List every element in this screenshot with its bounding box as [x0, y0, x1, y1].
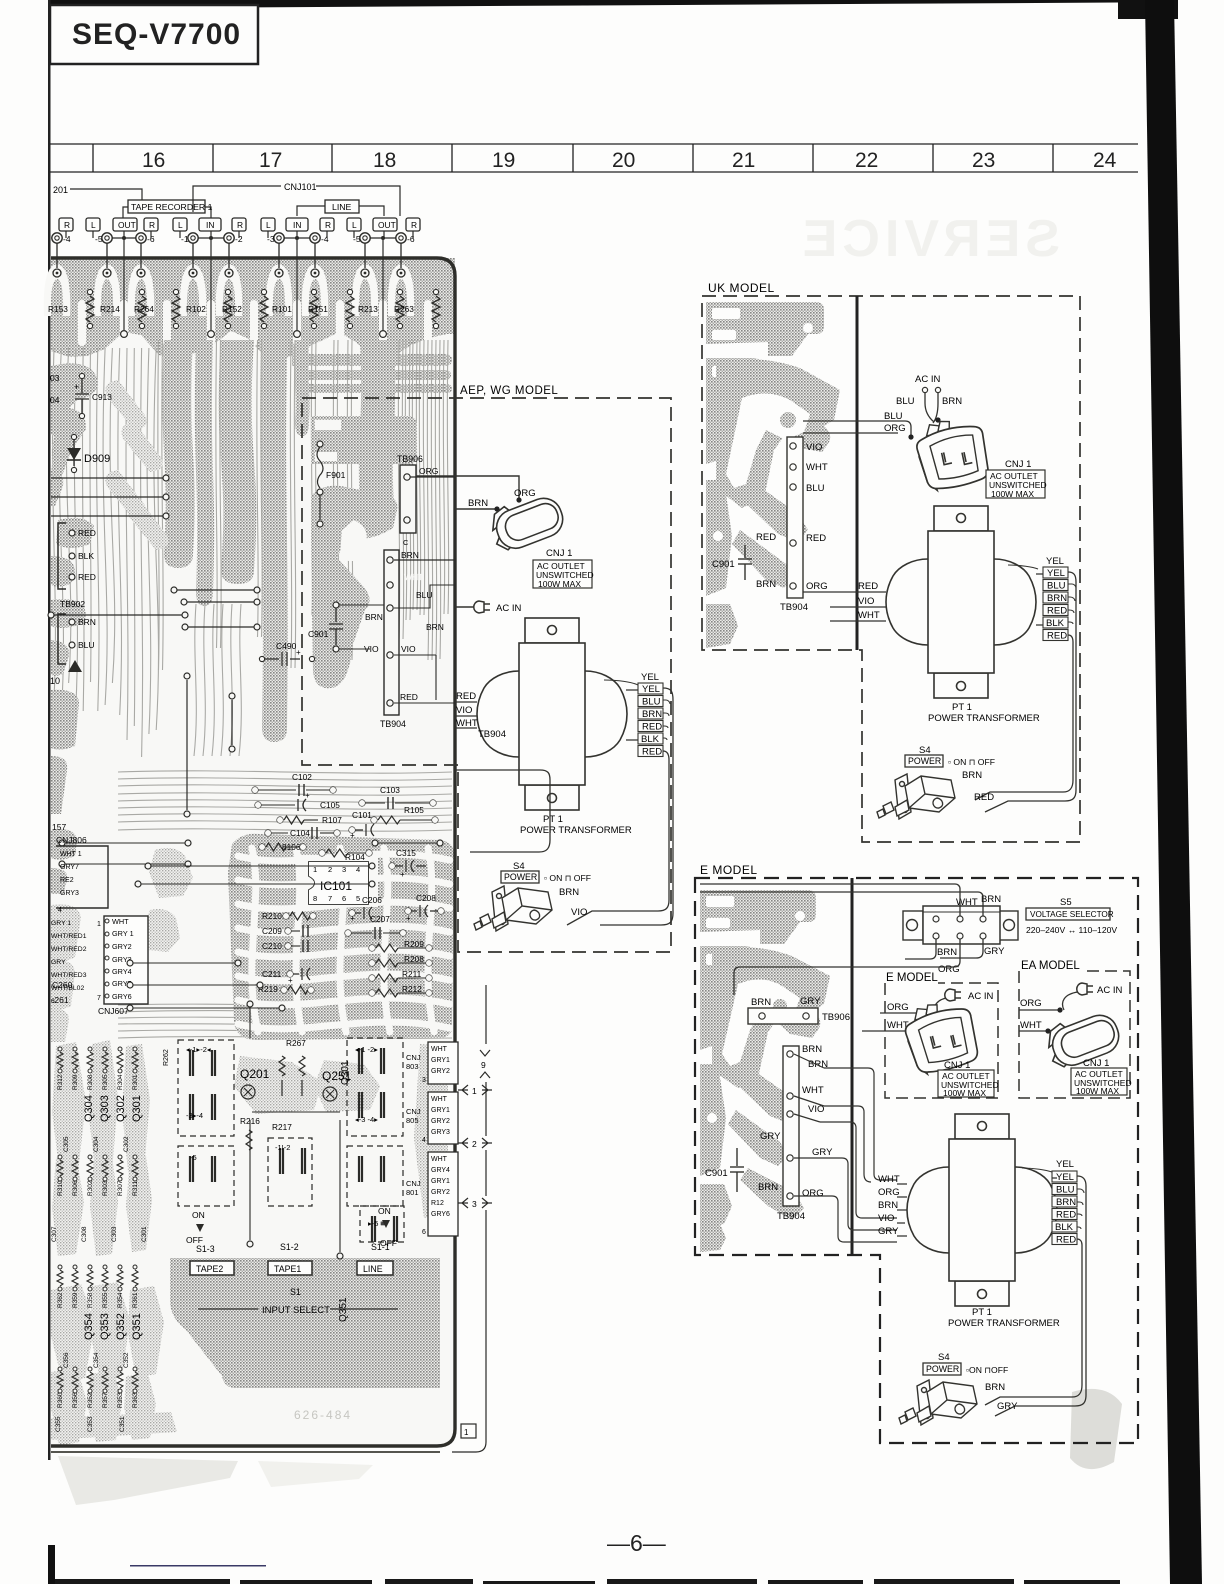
resistor row R153..R263: [86, 296, 94, 322]
svg-text:23: 23: [972, 149, 995, 172]
svg-text:R105: R105: [404, 805, 424, 815]
svg-text:C307: C307: [51, 1226, 58, 1242]
bottom small blue line: [130, 1565, 266, 1567]
svg-text:-5: -5: [95, 234, 103, 244]
svg-text:-3▸-4: -3▸-4: [186, 1111, 203, 1120]
svg-text:BRN: BRN: [985, 1382, 1005, 1393]
svg-text:BLU: BLU: [1056, 1185, 1075, 1196]
svg-text:POWER: POWER: [908, 756, 941, 766]
svg-text:TB902: TB902: [60, 599, 85, 609]
svg-text:POWER TRANSFORMER: POWER TRANSFORMER: [948, 1318, 1060, 1329]
svg-text:BLU: BLU: [896, 396, 915, 407]
transformer PT1 E: [907, 1114, 1057, 1306]
svg-text:BRN: BRN: [942, 396, 962, 407]
svg-text:YEL: YEL: [1056, 1172, 1074, 1183]
svg-text:Q251: Q251: [322, 1069, 352, 1083]
svg-text:BLU: BLU: [806, 483, 825, 494]
svg-text:C490: C490: [276, 641, 297, 651]
svg-text:TAPE2: TAPE2: [196, 1264, 223, 1274]
svg-text:RED: RED: [858, 581, 878, 592]
left wires RED VIO WHT: [803, 592, 886, 621]
svg-text:+: +: [296, 648, 301, 657]
copper blobs left column lower: [51, 904, 81, 961]
svg-text:C356: C356: [63, 1352, 70, 1368]
svg-text:R308: R308: [87, 1074, 94, 1090]
svg-text:C103: C103: [380, 785, 400, 795]
svg-text:C209: C209: [262, 926, 282, 936]
RCA pad row: [52, 233, 62, 243]
svg-text:ORG: ORG: [1020, 998, 1042, 1009]
svg-text:RED: RED: [1047, 606, 1067, 617]
svg-text:C353: C353: [87, 1416, 94, 1432]
svg-text:GRY: GRY: [997, 1401, 1018, 1412]
AC outlet CNJ1 (iso): [484, 486, 570, 558]
svg-text:VIO: VIO: [858, 596, 874, 607]
svg-text:ORG: ORG: [806, 581, 828, 592]
svg-text:20: 20: [612, 149, 635, 172]
svg-text:GRY: GRY: [812, 1147, 833, 1158]
copper hook blob (S-shape): [311, 486, 397, 688]
svg-text:BRN: BRN: [365, 612, 383, 622]
svg-text:R311: R311: [132, 1181, 139, 1196]
scan shadow under board: [58, 1456, 238, 1505]
svg-text:R357: R357: [102, 1392, 109, 1408]
harness arrows: [480, 1050, 490, 1078]
svg-text:WHT: WHT: [806, 462, 828, 473]
svg-text:4: 4: [422, 1137, 426, 1144]
svg-text:CNJ 1: CNJ 1: [546, 548, 572, 559]
svg-text:R262: R262: [163, 1049, 170, 1066]
svg-text:VIO: VIO: [456, 705, 472, 716]
svg-text:PT 1: PT 1: [972, 1307, 992, 1318]
svg-text:R362: R362: [57, 1292, 64, 1308]
terminal block TB904 (E): [783, 1046, 799, 1206]
svg-text:+: +: [74, 382, 79, 392]
AC outlet label box: [533, 560, 594, 589]
svg-text:100W MAX: 100W MAX: [991, 489, 1034, 499]
svg-text:-4: -4: [63, 234, 71, 244]
wires to AEP outlet: [410, 476, 455, 478]
svg-text:YEL: YEL: [641, 672, 659, 683]
svg-text:R361: R361: [132, 1292, 139, 1308]
svg-text:WHT/RED2: WHT/RED2: [51, 946, 87, 953]
svg-text:18: 18: [373, 149, 396, 172]
connector channel boxes: [59, 218, 73, 231]
fuse F901: [317, 441, 323, 447]
right wire bundle down to switch: [600, 688, 673, 925]
svg-text:GRY7: GRY7: [60, 864, 79, 871]
svg-text:2: 2: [472, 1139, 477, 1149]
svg-text:+: +: [305, 791, 310, 800]
svg-text:100W MAX: 100W MAX: [943, 1088, 986, 1098]
main PCB board G-626: [51, 258, 455, 1446]
svg-text:C354: C354: [93, 1352, 100, 1368]
svg-text:POWER TRANSFORMER: POWER TRANSFORMER: [520, 825, 632, 836]
diode D910: [68, 660, 82, 672]
svg-text:LINE: LINE: [363, 1264, 383, 1274]
svg-text:IN: IN: [206, 220, 214, 230]
svg-text:POWER: POWER: [926, 1364, 959, 1374]
svg-text:157: 157: [52, 822, 66, 832]
svg-text:626-484: 626-484: [294, 1408, 352, 1422]
svg-text:TB904: TB904: [780, 602, 808, 613]
svg-text:R306: R306: [72, 1180, 79, 1196]
svg-text:GRY1: GRY1: [431, 1178, 450, 1185]
svg-text:RED: RED: [806, 533, 826, 544]
svg-text:R305: R305: [102, 1074, 109, 1090]
svg-text:+: +: [400, 870, 405, 879]
svg-text:RED: RED: [1056, 1210, 1076, 1221]
svg-text:Q352: Q352: [115, 1313, 127, 1340]
svg-text:GRY3: GRY3: [431, 1129, 450, 1136]
copper block above TB906: [311, 416, 417, 464]
svg-text:100W MAX: 100W MAX: [1076, 1086, 1119, 1096]
wires TB904 to transformer: [794, 1054, 824, 1122]
svg-text:BRN: BRN: [751, 997, 771, 1008]
svg-text:R312: R312: [57, 1074, 64, 1090]
svg-text:CNJ101: CNJ101: [284, 182, 317, 192]
svg-text:IN: IN: [293, 220, 301, 230]
svg-text:C901: C901: [712, 559, 735, 570]
svg-text:S1-3: S1-3: [196, 1244, 215, 1254]
svg-text:Q351: Q351: [131, 1313, 143, 1340]
svg-text:ORG: ORG: [419, 466, 438, 476]
svg-text:CNJ 1: CNJ 1: [944, 1060, 970, 1071]
svg-text:RED: RED: [456, 691, 476, 702]
svg-text:◂-1▸-2◂: ◂-1▸-2◂: [186, 1045, 211, 1054]
svg-text:R152: R152: [222, 304, 242, 314]
svg-text:OUT: OUT: [118, 220, 136, 230]
svg-text:GRY 1: GRY 1: [51, 920, 71, 927]
svg-text:-5: -5: [190, 1153, 197, 1162]
transformer PT1: [477, 618, 627, 810]
svg-text:S1: S1: [290, 1287, 301, 1297]
copper pour top band: [51, 258, 455, 362]
terminal block TB906: [787, 437, 803, 598]
svg-text:AC IN: AC IN: [915, 374, 940, 385]
jumpers lower left: [130, 962, 238, 964]
svg-text:BRN: BRN: [426, 622, 444, 632]
AC outlet (front): [913, 413, 993, 493]
svg-text:GRY2: GRY2: [431, 1118, 450, 1125]
svg-text:L: L: [266, 220, 271, 230]
svg-text:BRN: BRN: [1047, 593, 1067, 604]
svg-text:TAPE1: TAPE1: [274, 1264, 301, 1274]
ruler numbers: [142, 149, 1117, 172]
svg-text:GRY: GRY: [51, 959, 66, 966]
svg-text:CNJ: CNJ: [406, 1107, 421, 1116]
svg-text:R309: R309: [72, 1074, 79, 1090]
svg-text:CNJ: CNJ: [406, 1053, 421, 1062]
horizontal trace bundle: [118, 771, 452, 1039]
long loop from board to connectors: [455, 770, 550, 852]
UK board edge bold line: [856, 296, 859, 650]
svg-text:R107: R107: [322, 815, 342, 825]
svg-text:BRN: BRN: [758, 1182, 778, 1193]
copper web component zone: [228, 834, 454, 1040]
svg-text:PT 1: PT 1: [543, 814, 563, 825]
svg-text:BLU: BLU: [642, 697, 661, 708]
svg-text:◂-1 -2▸: ◂-1 -2▸: [355, 1045, 378, 1054]
svg-text:INPUT SELECT: INPUT SELECT: [262, 1305, 330, 1316]
svg-text:D909: D909: [84, 453, 110, 465]
svg-text:C211: C211: [262, 969, 282, 979]
long jumpers component zone: [62, 842, 188, 844]
svg-text:BRN: BRN: [642, 709, 662, 720]
harness wire to board corner: [452, 1082, 486, 1452]
bottom torn black strip: [55, 1579, 1120, 1584]
svg-text:C302: C302: [123, 1136, 130, 1152]
svg-text:RED: RED: [400, 692, 418, 702]
svg-text:RED: RED: [974, 792, 994, 803]
pad links: [112, 237, 136, 239]
svg-text:R267: R267: [286, 1038, 306, 1048]
svg-text:R359: R359: [72, 1292, 79, 1308]
svg-text:R360: R360: [57, 1392, 64, 1408]
svg-text:R102: R102: [186, 304, 206, 314]
svg-text:R352: R352: [87, 1392, 94, 1408]
svg-text:3: 3: [472, 1199, 477, 1209]
svg-text:ON: ON: [192, 1210, 205, 1220]
svg-text:Q354: Q354: [83, 1313, 95, 1340]
svg-text:24: 24: [1093, 149, 1117, 172]
svg-text:4: 4: [58, 907, 62, 914]
svg-text:TB904: TB904: [478, 729, 506, 740]
EA: AC IN plug: [1077, 983, 1093, 995]
svg-text:BRN: BRN: [78, 617, 96, 627]
svg-text:C210: C210: [262, 941, 282, 951]
svg-text:16: 16: [142, 149, 165, 172]
svg-text:GRY2: GRY2: [431, 1068, 450, 1075]
svg-text:5: 5: [356, 894, 360, 903]
svg-text:C207: C207: [370, 914, 390, 924]
svg-text:▫ ON ⊓ OFF: ▫ ON ⊓ OFF: [544, 873, 591, 883]
svg-text:GRY4: GRY4: [431, 1167, 450, 1174]
svg-text:WHT/RED1: WHT/RED1: [51, 933, 87, 940]
svg-text:Q303: Q303: [99, 1095, 111, 1122]
svg-text:GRY6: GRY6: [431, 1211, 450, 1218]
svg-text:R354: R354: [117, 1292, 124, 1308]
svg-text:WHT: WHT: [858, 610, 880, 621]
svg-text:19: 19: [492, 149, 515, 172]
svg-text:GRY2: GRY2: [112, 942, 132, 951]
svg-text:ORG: ORG: [514, 488, 536, 499]
svg-text:21: 21: [732, 149, 755, 172]
svg-text:C913: C913: [92, 392, 112, 402]
connector CNJ1607 pin list: [104, 916, 148, 1004]
right vertical black bar (slanted): [1145, 0, 1202, 1584]
op-amp IC101: [309, 862, 368, 904]
svg-text:R: R: [325, 220, 331, 230]
svg-text:S4: S4: [938, 1352, 950, 1363]
svg-text:VIO: VIO: [401, 644, 416, 654]
svg-text:▫ON ⊓OFF: ▫ON ⊓OFF: [966, 1365, 1008, 1375]
svg-text:UK MODEL: UK MODEL: [708, 281, 775, 295]
svg-text:R307: R307: [117, 1180, 124, 1196]
svg-text:PT 1: PT 1: [952, 702, 972, 713]
svg-text:C308: C308: [81, 1226, 88, 1242]
svg-text:22: 22: [855, 149, 878, 172]
svg-text:TB904: TB904: [777, 1211, 805, 1222]
svg-text:WHT: WHT: [431, 1046, 448, 1053]
E model dashed boundary: [695, 878, 1138, 1443]
svg-text:EA MODEL: EA MODEL: [1021, 960, 1080, 972]
svg-text:AC IN: AC IN: [968, 991, 993, 1002]
svg-text:CNJ 1: CNJ 1: [1083, 1058, 1109, 1069]
svg-text:6: 6: [422, 1229, 426, 1236]
svg-text:VIO: VIO: [571, 907, 587, 918]
svg-text:Q201: Q201: [240, 1067, 270, 1081]
top black bar: [50, 0, 1118, 9]
svg-text:R264: R264: [134, 304, 154, 314]
svg-text:-6: -6: [407, 234, 415, 244]
wires S5 bottom: [905, 939, 983, 959]
svg-text:R213: R213: [358, 304, 378, 314]
svg-text:S1-1: S1-1: [371, 1242, 390, 1252]
svg-text:WHT: WHT: [112, 917, 129, 926]
svg-text:BLU: BLU: [884, 411, 903, 422]
ruler lines: [50, 143, 1138, 145]
svg-text:C901: C901: [705, 1168, 728, 1179]
svg-text:R356: R356: [72, 1392, 79, 1408]
svg-text:1: 1: [464, 1428, 469, 1437]
wires S5 top: [700, 884, 983, 916]
svg-text:ORG: ORG: [938, 964, 960, 975]
svg-text:R263: R263: [394, 304, 414, 314]
svg-text:BRN: BRN: [878, 1200, 898, 1211]
svg-text:C208: C208: [416, 893, 436, 903]
svg-text:BRN: BRN: [468, 498, 488, 509]
svg-text:BRN: BRN: [756, 579, 776, 590]
svg-text:◂-3 -4▸: ◂-3 -4▸: [355, 1115, 378, 1124]
svg-text:R304: R304: [117, 1074, 124, 1090]
label TAPE RECORDER 1: [128, 200, 205, 213]
svg-text:POWER TRANSFORMER: POWER TRANSFORMER: [928, 713, 1040, 724]
wire bundle right side (UK): [985, 572, 1076, 812]
copper streaks transistor zone: [52, 1042, 86, 1176]
svg-text:L: L: [178, 220, 183, 230]
svg-text:Q302: Q302: [115, 1095, 127, 1122]
svg-text:201: 201: [53, 185, 68, 195]
svg-text:WHT: WHT: [431, 1156, 448, 1163]
svg-text:R217: R217: [272, 1122, 292, 1132]
svg-text:BRN: BRN: [937, 947, 957, 958]
svg-text:220–240V ↔ 110–120V: 220–240V ↔ 110–120V: [1026, 925, 1117, 935]
svg-text:S1-2: S1-2: [280, 1242, 299, 1252]
svg-text:R210: R210: [262, 911, 282, 921]
svg-text:R302: R302: [87, 1180, 94, 1196]
svg-text:OUT: OUT: [378, 220, 396, 230]
copper strips top-right horizontal bundle: [292, 354, 452, 366]
svg-text:-1!-2: -1!-2: [275, 1143, 290, 1152]
svg-text:BLU: BLU: [78, 640, 95, 650]
svg-text:POWER: POWER: [504, 872, 537, 882]
svg-text:GRY1: GRY1: [431, 1057, 450, 1064]
diode D909: [71, 434, 76, 439]
svg-text:3: 3: [422, 1077, 426, 1084]
svg-text:VOLTAGE SELECTOR: VOLTAGE SELECTOR: [1030, 910, 1114, 919]
svg-text:ORG: ORG: [878, 1187, 900, 1198]
svg-text:VIO: VIO: [878, 1213, 894, 1224]
top-right corner black block: [1118, 0, 1178, 19]
svg-text:GRY 1: GRY 1: [112, 929, 134, 938]
svg-text:RED: RED: [642, 722, 662, 733]
svg-text:Q304: Q304: [83, 1095, 95, 1122]
svg-text:L: L: [352, 220, 357, 230]
svg-text:7: 7: [328, 894, 332, 903]
svg-text:R153: R153: [48, 304, 68, 314]
pad drops into board: [56, 243, 58, 268]
svg-text:RED: RED: [642, 747, 662, 758]
svg-text:C260: C260: [52, 980, 73, 990]
svg-text:AC IN: AC IN: [496, 603, 521, 614]
svg-text:AEP, WG MODEL: AEP, WG MODEL: [460, 385, 558, 397]
svg-text:BRN: BRN: [401, 550, 419, 560]
svg-text:VIO: VIO: [806, 442, 822, 453]
svg-text:ORG: ORG: [802, 1188, 824, 1199]
svg-text:Q301: Q301: [131, 1095, 143, 1122]
svg-text:R214: R214: [100, 304, 120, 314]
svg-text:03: 03: [50, 373, 60, 383]
svg-text:WHT: WHT: [456, 718, 478, 729]
svg-text:-1: -1: [181, 234, 189, 244]
svg-text:7: 7: [97, 995, 101, 1002]
svg-text:C352: C352: [123, 1352, 130, 1368]
copper blobs left column: [51, 363, 98, 402]
svg-text:R310: R310: [57, 1180, 64, 1196]
svg-text:WHT: WHT: [1020, 1020, 1042, 1031]
svg-text:WHT 1: WHT 1: [60, 851, 82, 858]
svg-text:SEQ-V7700: SEQ-V7700: [72, 18, 241, 51]
svg-text:C: C: [403, 538, 409, 547]
svg-text:C101: C101: [352, 810, 372, 820]
svg-text:9: 9: [481, 1060, 486, 1070]
svg-text:R: R: [149, 220, 155, 230]
svg-text:803: 803: [406, 1062, 419, 1071]
svg-text:GRY1: GRY1: [431, 1107, 450, 1114]
left wires RED VIO WHT: [455, 702, 477, 728]
svg-text:WHT: WHT: [431, 1096, 448, 1103]
svg-text:RED: RED: [78, 528, 96, 538]
svg-text:C351: C351: [119, 1416, 126, 1432]
SEQ-V7700 title box: [50, 5, 258, 64]
terminal block TB904 (board): [384, 550, 399, 715]
svg-text:BLK: BLK: [78, 551, 94, 561]
UK pcb fragment: [706, 302, 840, 648]
svg-text:C303: C303: [111, 1226, 118, 1242]
svg-text:ORG: ORG: [884, 423, 906, 434]
svg-text:04: 04: [50, 395, 60, 405]
svg-text:E MODEL: E MODEL: [886, 972, 938, 984]
svg-text:CNJ806: CNJ806: [56, 835, 87, 845]
svg-text:GRY3: GRY3: [60, 890, 79, 897]
svg-text:CNJ: CNJ: [406, 1179, 421, 1188]
svg-text:1: 1: [97, 921, 101, 928]
svg-text:BLU: BLU: [1047, 581, 1066, 592]
svg-text:TAPE RECORDER 1: TAPE RECORDER 1: [131, 202, 213, 212]
svg-text:17: 17: [259, 149, 282, 172]
svg-text:R303: R303: [102, 1180, 109, 1196]
svg-text:R355: R355: [102, 1292, 109, 1308]
TB902 terminal labels: [58, 523, 66, 589]
svg-text:+: +: [350, 914, 355, 923]
etched trace lines left/middle: [53, 340, 449, 757]
svg-text:C206: C206: [362, 895, 382, 905]
voltage selector S5: [903, 906, 1018, 944]
svg-text:R: R: [237, 220, 243, 230]
svg-text:WHT: WHT: [802, 1085, 824, 1096]
svg-text:C305: C305: [63, 1136, 70, 1152]
